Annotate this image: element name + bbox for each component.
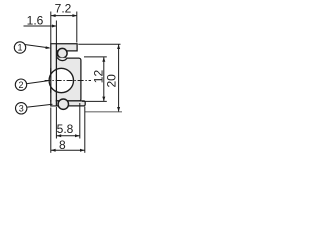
dimension 7.2 extension line right [76,12,78,43]
dimension 20 line with arrows [118,44,120,111]
dimension 5.8 line with arrows [57,135,80,137]
bottom small circle (part 3), gray fill [58,99,68,109]
left strip (part 1) inner edge line [55,44,57,106]
dimension 1.6 line with arrow [24,25,57,27]
svg-text:1: 1 [17,43,22,53]
dimension 8 extension line right [84,107,86,153]
dimension 8 line with arrows [51,149,85,151]
dimension 12 extension line bottom [82,100,107,102]
svg-text:5.8: 5.8 [57,122,74,136]
dimension 5.8 extension line right [79,103,81,139]
dimension 20 extension line bottom (gray) [85,111,122,113]
svg-text:8: 8 [59,138,66,152]
svg-text:7.2: 7.2 [55,2,72,16]
svg-text:1.6: 1.6 [27,14,44,28]
svg-text:3: 3 [19,104,24,114]
leader line for callout 3 [27,104,52,107]
dimension 7.2 extension line left [50,12,52,44]
svg-text:2: 2 [18,80,23,90]
bottom plate of profile [51,101,85,106]
dimension 20 extension line top [78,43,120,45]
top small circle (roller), gray fill [58,48,68,58]
leader line for callout 1 with arrow [25,45,50,48]
callout circle 3 [16,103,27,114]
leader line for callout 2 [27,81,48,84]
dimension 1.6 extension line right [55,21,57,44]
left strip (part 1) lighter interior [52,44,56,105]
callout circle 1 [14,42,25,53]
notch arc below top roller [58,58,68,61]
svg-text:20: 20 [105,74,119,88]
callout circle 2 [15,79,26,90]
dimension 12 line with arrows [103,57,105,101]
profile body (rail cross-section), gray fill [51,44,81,101]
dimension 7.2 line with arrows [51,15,77,17]
strip edge lines continuing through big circle [50,68,52,93]
big circle hole (part 2), white fill [49,68,73,92]
svg-text:12: 12 [92,70,106,84]
horizontal dash-dot centerline of big circle [45,80,91,82]
dimension 5.8 extension line left [55,107,57,139]
dimension 12 extension line top [84,56,107,58]
dimension 8 extension line left [50,108,52,153]
